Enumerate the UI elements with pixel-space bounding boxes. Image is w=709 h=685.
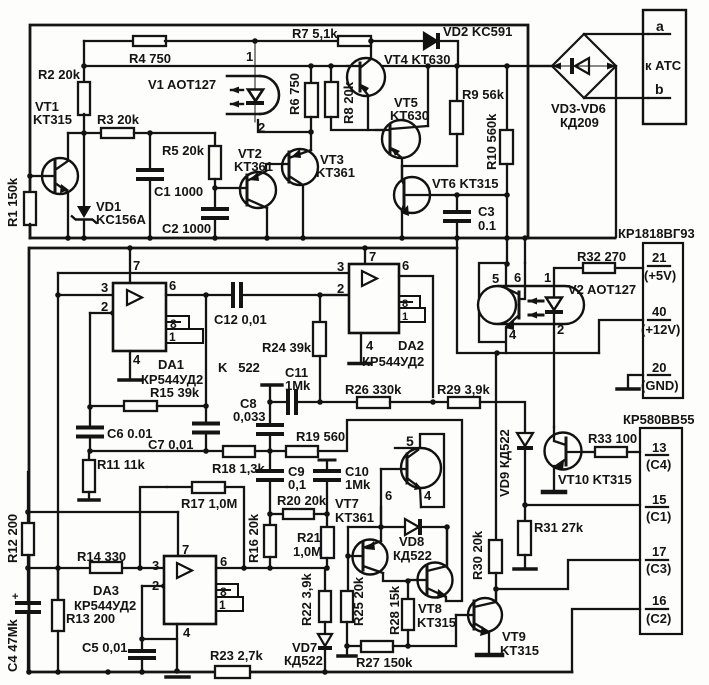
wire V1 base down <box>380 469 382 527</box>
capacitor C1 <box>136 168 164 172</box>
optocoupler V1 phototransistor <box>401 448 441 488</box>
wire R4 to R7 <box>165 40 338 42</box>
wire inner vertical x57 <box>57 273 59 600</box>
node bus dots <box>65 235 71 241</box>
svg-text:4: 4 <box>424 488 432 503</box>
resistor R14 <box>90 562 122 573</box>
svg-text:(C2): (C2) <box>646 611 671 626</box>
svg-text:(+5V): (+5V) <box>644 268 676 283</box>
optocoupler V1 LED <box>260 76 279 114</box>
resistor R22 <box>324 568 326 591</box>
ground VT9 <box>477 653 502 658</box>
svg-text:VT4 KT630: VT4 KT630 <box>384 52 450 67</box>
svg-text:3: 3 <box>337 259 344 274</box>
resistor R10 <box>506 66 508 130</box>
svg-text:7: 7 <box>369 249 376 264</box>
resistor R32 <box>556 267 583 269</box>
wire bridge right down <box>615 66 617 237</box>
svg-text:R31 27k: R31 27k <box>534 520 584 535</box>
wire pin40 to bus <box>599 320 643 353</box>
wire R17 left down <box>140 487 167 568</box>
svg-text:VT8: VT8 <box>418 601 442 616</box>
svg-text:K 522: K 522 <box>218 360 260 375</box>
wire bridge to b <box>584 97 648 99</box>
wire y568 left <box>28 567 164 569</box>
op-amp DA2 <box>349 264 399 333</box>
svg-text:DA1: DA1 <box>158 357 184 372</box>
svg-text:R12 200: R12 200 <box>5 514 20 563</box>
op-amp DA3 pin7 <box>177 512 179 556</box>
transistor VT1 <box>42 158 78 194</box>
capacitor C8 <box>269 434 271 451</box>
wire C1 to bus <box>149 180 151 238</box>
transistor VT8 wires <box>408 579 417 581</box>
svg-text:C5 0,01: C5 0,01 <box>82 640 128 655</box>
resistor R31 <box>524 505 526 521</box>
svg-text:KT630: KT630 <box>390 108 429 123</box>
resistor R28 <box>407 581 409 599</box>
resistor R2 <box>78 82 90 115</box>
wire C12 right <box>242 294 349 296</box>
svg-text:R18 1,3k: R18 1,3k <box>212 461 266 476</box>
wire pin16 path <box>572 609 640 672</box>
svg-text:R29 3,9k: R29 3,9k <box>437 382 491 397</box>
resistor R24 <box>319 295 321 322</box>
svg-text:13: 13 <box>652 440 666 455</box>
node 408-581 <box>405 578 411 584</box>
svg-text:2: 2 <box>337 281 344 296</box>
capacitor C7 <box>192 422 220 426</box>
wire R7 to VD2 <box>371 40 424 42</box>
resistor R17 <box>167 486 192 488</box>
svg-text:R21: R21 <box>297 530 321 545</box>
svg-text:2: 2 <box>557 322 564 337</box>
svg-text:C1 1000: C1 1000 <box>154 184 203 199</box>
transistor VT3 wires <box>310 132 312 150</box>
svg-text:R4 750: R4 750 <box>129 51 171 66</box>
svg-text:VT9: VT9 <box>502 629 526 644</box>
svg-text:R1 150k: R1 150k <box>5 177 20 227</box>
optocoupler V2 body <box>499 286 584 324</box>
wire DA1 pin3 <box>58 294 113 296</box>
svg-text:4: 4 <box>509 327 517 342</box>
node 311-132 <box>308 129 314 135</box>
svg-text:1: 1 <box>544 270 551 285</box>
svg-text:1: 1 <box>402 311 408 323</box>
svg-text:C6 0.01: C6 0.01 <box>107 426 153 441</box>
svg-text:C3: C3 <box>478 204 495 219</box>
svg-text:C7 0,01: C7 0,01 <box>148 437 194 452</box>
op-amp DA3 pins 8-1 <box>216 584 238 597</box>
svg-text:VD9 КД522: VD9 КД522 <box>497 429 512 497</box>
wire C1 stub <box>149 133 151 169</box>
svg-text:1,0M: 1,0M <box>293 544 322 559</box>
resistor R5 with stubs <box>214 133 216 146</box>
resistor R12 <box>27 472 29 523</box>
svg-text:5: 5 <box>492 271 499 286</box>
capacitor C3 <box>456 195 458 212</box>
box к АТС <box>643 10 686 124</box>
svg-text:7: 7 <box>133 258 140 273</box>
resistor R19 <box>286 446 318 457</box>
svg-text:R9 56k: R9 56k <box>462 87 505 102</box>
wire feed line y66 <box>84 65 553 67</box>
wire top border <box>30 25 528 238</box>
optocoupler V2 phototransistor box <box>479 263 507 342</box>
node junction 255-41 <box>252 38 258 44</box>
svg-text:3: 3 <box>101 280 108 295</box>
svg-text:b: b <box>655 81 664 97</box>
diode VD7 <box>324 622 326 633</box>
wire R26-R29 <box>390 401 448 403</box>
svg-text:КД209: КД209 <box>560 115 599 130</box>
svg-text:VT7: VT7 <box>335 496 359 511</box>
svg-text:КД522: КД522 <box>393 548 432 563</box>
node 507-195 <box>504 192 510 198</box>
capacitor C11 <box>286 389 290 415</box>
resistor R11 <box>88 451 90 460</box>
wire R2-VD1 <box>83 114 85 206</box>
wire pin2 down <box>141 586 143 639</box>
node 270-514 <box>267 511 273 517</box>
svg-text:R14 330: R14 330 <box>77 549 126 564</box>
transistor VT2 wires <box>266 164 284 171</box>
ground pin20 <box>628 375 643 388</box>
svg-text:3: 3 <box>152 558 159 573</box>
svg-text:2: 2 <box>152 578 159 593</box>
capacitor C5 <box>141 639 143 648</box>
svg-text:DA2: DA2 <box>398 338 424 353</box>
wire C6 bottom <box>89 437 91 451</box>
wire VT7 base net <box>347 527 349 593</box>
svg-text:16: 16 <box>652 593 666 608</box>
svg-text:R15 39k: R15 39k <box>150 385 200 400</box>
resistor R9 <box>456 66 458 101</box>
resistor R13 <box>57 568 59 600</box>
resistor R33 <box>582 451 595 453</box>
wire left border <box>28 248 31 672</box>
svg-text:(C4): (C4) <box>646 457 671 472</box>
transistor VT8 <box>418 563 453 598</box>
wire VD8 right <box>420 527 447 564</box>
svg-text:R13 200: R13 200 <box>66 611 115 626</box>
svg-text:R24 39k: R24 39k <box>262 340 312 355</box>
transistor VT3 <box>282 149 318 185</box>
svg-text:6: 6 <box>220 554 227 569</box>
svg-text:R32 270: R32 270 <box>577 249 626 264</box>
transistor VT4 <box>347 58 385 96</box>
svg-text:V2 AOT127: V2 AOT127 <box>568 282 636 297</box>
svg-text:C2 1000: C2 1000 <box>162 221 211 236</box>
wire R29 right <box>480 402 525 432</box>
node 371-41 <box>368 38 374 44</box>
wire supply line y41 <box>84 40 133 42</box>
svg-text:R33 100: R33 100 <box>588 431 637 446</box>
wire V2 pin6 from bus <box>524 238 526 263</box>
svg-text:R22 3,9k: R22 3,9k <box>299 572 314 626</box>
diode VD1 zener <box>77 206 91 218</box>
svg-text:(+12V): (+12V) <box>641 322 680 337</box>
op-amp DA1 pins 8-1 <box>166 316 189 329</box>
diode VD2 <box>424 33 437 49</box>
svg-text:R7 5,1k: R7 5,1k <box>292 26 338 41</box>
node 215-188 <box>212 185 218 191</box>
wire R2 top <box>83 41 85 82</box>
wire R3 right <box>134 132 215 134</box>
wire R3 line <box>68 132 101 134</box>
transistor VT4 wires <box>370 41 372 58</box>
svg-text:8: 8 <box>170 317 177 331</box>
op-amp DA1 <box>113 283 166 351</box>
IC KR1818VG93 box <box>643 243 683 398</box>
resistor R20 <box>270 513 283 515</box>
wire R18-R19 <box>255 450 286 452</box>
node 408-646 <box>405 643 411 649</box>
resistor R4 <box>133 36 166 46</box>
wire plus12 bus <box>494 350 500 356</box>
transistor VT7 <box>353 540 388 575</box>
svg-text:5: 5 <box>406 433 414 449</box>
svg-text:R3 20k: R3 20k <box>97 112 140 127</box>
svg-text:R19 560: R19 560 <box>296 429 345 444</box>
wire VD1 to bus <box>83 220 85 238</box>
optocoupler V2 phototransistor <box>478 286 516 324</box>
transistor VT2 <box>240 172 276 208</box>
svg-text:R17 1,0M: R17 1,0M <box>181 496 237 511</box>
svg-text:1Mk: 1Mk <box>345 477 371 492</box>
resistor R27 <box>347 645 361 647</box>
wire ground bus bottom <box>29 671 572 674</box>
optocoupler V2 LED <box>553 268 555 297</box>
node 150-133 <box>147 130 153 136</box>
wire R12 down <box>27 568 29 604</box>
capacitor C10 <box>319 459 335 462</box>
wire pin17 path <box>496 560 640 589</box>
resistor R18 <box>223 446 255 457</box>
resistor R3 <box>101 128 134 138</box>
svg-text:DA3: DA3 <box>93 583 119 598</box>
resistor R7 <box>338 36 371 46</box>
op-amp DA2 pins 8-1 <box>399 296 420 308</box>
diode VD8 <box>405 519 419 535</box>
resistor R21 <box>321 527 334 558</box>
svg-text:КД522: КД522 <box>284 653 323 668</box>
svg-text:KT315: KT315 <box>417 615 456 630</box>
wire VT2 base <box>215 187 247 189</box>
svg-text:8: 8 <box>402 298 408 310</box>
svg-text:1: 1 <box>169 330 176 344</box>
node 84-133 <box>81 130 87 136</box>
resistor R25 <box>341 591 353 622</box>
svg-text:40: 40 <box>652 304 666 319</box>
wire VD2 out <box>438 41 458 66</box>
node VT1 base <box>27 173 33 179</box>
transistor VT5 <box>382 120 420 158</box>
wire border to bridge <box>528 65 552 67</box>
wire R19 right <box>318 420 462 601</box>
svg-text:R16 20k: R16 20k <box>246 513 261 563</box>
node 496-589 <box>493 586 499 592</box>
svg-text:R25 20k: R25 20k <box>351 576 366 626</box>
svg-text:(GND): (GND) <box>641 378 679 393</box>
capacitor C9 <box>269 451 271 471</box>
svg-text:C4 47Mk: C4 47Mk <box>5 618 20 672</box>
svg-text:6: 6 <box>402 258 409 273</box>
resistor R16 <box>264 525 276 557</box>
wire DA2 pin2 <box>320 294 349 296</box>
op-amp DA3 <box>164 556 216 624</box>
op-amp DA1 pin7 <box>129 248 131 283</box>
transistor VT10 <box>545 433 582 470</box>
transistor VT5 wires <box>427 66 429 126</box>
wire bridge to a <box>584 33 648 35</box>
wire y512 <box>28 511 178 513</box>
svg-text:1Mk: 1Mk <box>285 378 311 393</box>
svg-text:R20 20k: R20 20k <box>277 493 327 508</box>
svg-text:R8 20k: R8 20k <box>341 81 356 124</box>
svg-text:R26 330k: R26 330k <box>345 382 402 397</box>
rectifier bridge VD3-VD6 <box>552 34 616 98</box>
svg-text:KT361: KT361 <box>316 165 355 180</box>
svg-text:6: 6 <box>385 488 392 503</box>
svg-text:20: 20 <box>652 360 666 375</box>
node dots y66 <box>81 63 87 69</box>
wire R5 bottom <box>214 179 216 209</box>
transistor VT6 <box>394 177 430 213</box>
wire y451 bus <box>90 450 223 452</box>
svg-text:0.1: 0.1 <box>478 218 496 233</box>
svg-text:KC156A: KC156A <box>96 212 146 227</box>
wire x206 vertical <box>205 295 207 423</box>
svg-text:R28 15k: R28 15k <box>387 585 402 635</box>
svg-text:KT315: KT315 <box>33 112 72 127</box>
wire DA3 pin6 <box>216 567 327 569</box>
wire C8-C11 <box>270 401 288 403</box>
ground VT10 <box>543 490 565 495</box>
svg-text:R10 560k: R10 560k <box>484 113 499 170</box>
wire C7 bottom <box>205 433 207 451</box>
svg-text:R6 750: R6 750 <box>287 73 302 115</box>
transistor VT9 <box>468 598 502 632</box>
svg-text:15: 15 <box>652 492 666 507</box>
transistor VT7 wires <box>380 507 382 541</box>
wire border right path <box>457 248 599 353</box>
wire VD9 down <box>524 447 526 505</box>
svg-text:VT6 KT315: VT6 KT315 <box>432 176 498 191</box>
wire VD8 line <box>348 526 403 528</box>
svg-text:a: a <box>656 18 664 34</box>
svg-text:VT10 KT315: VT10 KT315 <box>558 472 632 487</box>
wire C2 to bus <box>214 218 216 238</box>
wire V2 LED down <box>553 313 555 427</box>
svg-text:R30 20k: R30 20k <box>470 530 485 580</box>
svg-text:2: 2 <box>101 299 108 314</box>
wire pin15 line <box>525 504 640 506</box>
svg-text:R23 2,7k: R23 2,7k <box>210 648 264 663</box>
svg-text:R5 20k: R5 20k <box>162 143 205 158</box>
wire x90 vertical <box>89 313 91 427</box>
capacitor C6 <box>76 426 104 430</box>
resistor R1 <box>24 192 36 225</box>
resistor R6 <box>310 66 312 83</box>
node 457-195 <box>454 192 460 198</box>
svg-text:4: 4 <box>183 625 191 640</box>
resistor R30 <box>495 353 497 540</box>
svg-text:KT361: KT361 <box>335 510 374 525</box>
svg-text:V1 AOT127: V1 AOT127 <box>148 77 216 92</box>
svg-text:VD3-VD6: VD3-VD6 <box>551 101 606 116</box>
wire DA3 pin2 <box>142 585 164 587</box>
svg-text:0,033: 0,033 <box>233 409 266 424</box>
wire ground bus (top section) <box>30 237 615 240</box>
svg-text:КР580ВВ55: КР580ВВ55 <box>623 412 695 427</box>
svg-text:4: 4 <box>133 352 141 367</box>
svg-text:R27 150k: R27 150k <box>356 655 413 670</box>
svg-text:21: 21 <box>652 250 666 265</box>
resistor R29 <box>448 397 480 408</box>
wire DA1 pin6 <box>166 294 232 296</box>
wire DA1 pin2 <box>90 312 113 314</box>
svg-text:(C3): (C3) <box>646 561 671 576</box>
resistor R8 <box>330 66 332 82</box>
svg-text:C12 0,01: C12 0,01 <box>214 312 267 327</box>
transistor VT6 wires <box>401 166 403 181</box>
wire opto1 to VT3 emitter <box>258 120 311 132</box>
svg-text:8: 8 <box>220 585 227 599</box>
IC KR580BB55 box <box>640 428 682 634</box>
wire C11 right <box>296 401 357 403</box>
wire VT5 emitter to R9 <box>402 165 457 167</box>
svg-text:0,1: 0,1 <box>288 477 306 492</box>
capacitor C2 <box>201 207 229 211</box>
op-amp DA2 pin7 <box>364 248 366 264</box>
svg-text:4: 4 <box>366 338 374 353</box>
svg-text:6: 6 <box>169 278 176 293</box>
svg-text:R11 11k: R11 11k <box>97 457 145 472</box>
svg-text:КР544УД2: КР544УД2 <box>362 354 424 369</box>
svg-text:6: 6 <box>514 270 521 285</box>
resistor R26 <box>357 397 390 408</box>
svg-text:KT315: KT315 <box>500 643 539 658</box>
transistor VT9 wires <box>456 614 468 616</box>
wire border stub <box>456 238 458 248</box>
svg-text:VD8: VD8 <box>399 534 424 549</box>
svg-text:1: 1 <box>246 49 253 64</box>
wire R10 to V2 box <box>506 238 508 264</box>
svg-text:2: 2 <box>258 120 265 135</box>
capacitor C12 <box>231 282 235 308</box>
svg-text:(C1): (C1) <box>646 509 671 524</box>
wire da2 pin3 line <box>58 272 349 274</box>
svg-text:VD2 KC591: VD2 KC591 <box>443 24 512 39</box>
svg-text:к АТС: к АТС <box>645 58 682 73</box>
resistor R23 <box>215 666 250 678</box>
transistor VT1 wires <box>30 175 42 177</box>
diode VD9 <box>517 433 533 446</box>
svg-text:1: 1 <box>219 598 226 612</box>
node 347-646 <box>344 643 350 649</box>
wire bottom box top border <box>30 247 457 250</box>
node bus dots bottom <box>26 669 32 675</box>
svg-text:17: 17 <box>652 544 666 559</box>
svg-text:R2 20k: R2 20k <box>38 67 81 82</box>
svg-text:KT361: KT361 <box>234 159 273 174</box>
svg-text:КР1818ВГ93: КР1818ВГ93 <box>618 226 695 241</box>
resistor R15 <box>90 405 124 407</box>
